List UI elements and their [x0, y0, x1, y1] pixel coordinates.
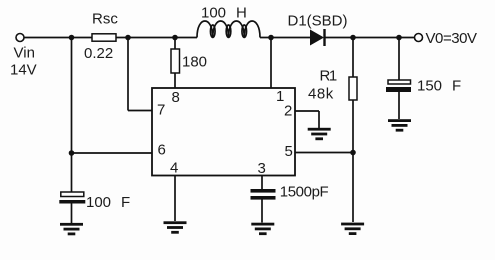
- svg-text:4: 4: [170, 160, 178, 177]
- svg-text:Vin: Vin: [14, 45, 35, 62]
- svg-text:3: 3: [258, 160, 266, 177]
- svg-text:F: F: [121, 194, 130, 211]
- svg-text:100: 100: [201, 5, 226, 22]
- svg-text:5: 5: [285, 143, 293, 160]
- svg-text:8: 8: [172, 89, 180, 106]
- svg-text:V0=30V: V0=30V: [426, 30, 478, 47]
- svg-text:Rsc: Rsc: [92, 11, 118, 28]
- svg-text:6: 6: [158, 142, 166, 159]
- svg-text:F: F: [452, 78, 461, 95]
- svg-text:48k: 48k: [308, 86, 334, 103]
- svg-text:2: 2: [284, 103, 292, 120]
- svg-text:150: 150: [417, 78, 442, 95]
- svg-text:D1(SBD): D1(SBD): [288, 13, 348, 30]
- svg-text:100: 100: [86, 194, 111, 211]
- svg-text:1500pF: 1500pF: [280, 184, 329, 201]
- svg-text:14V: 14V: [10, 62, 37, 79]
- svg-text:7: 7: [157, 102, 165, 119]
- svg-text:R1: R1: [320, 67, 337, 84]
- svg-text:0.22: 0.22: [84, 45, 113, 62]
- svg-text:180: 180: [182, 54, 207, 71]
- svg-text:H: H: [236, 5, 247, 22]
